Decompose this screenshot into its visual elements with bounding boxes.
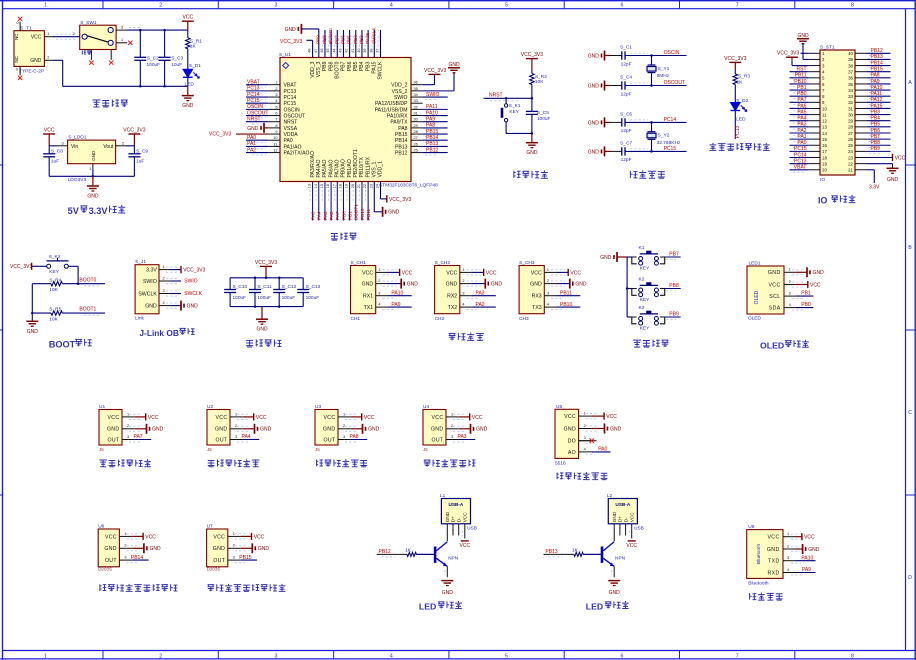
svg-text:3: 3 <box>547 291 549 295</box>
svg-text:GND: GND <box>104 546 116 552</box>
no-connect X on S_T1 bottom pin <box>18 76 22 80</box>
svg-text:OUT: OUT <box>108 437 120 443</box>
wire bottom ground rail <box>63 85 188 87</box>
wire net PC14 <box>790 157 809 159</box>
junction <box>254 305 257 308</box>
svg-text:VCC: VCC <box>531 270 542 276</box>
svg-text:3: 3 <box>275 3 278 9</box>
svg-text:PA10: PA10 <box>801 555 813 561</box>
wire net PB4 <box>361 30 363 58</box>
svg-text:30: 30 <box>414 118 418 122</box>
svg-text:VCC_3V3: VCC_3V3 <box>424 68 446 74</box>
svg-text:PB14: PB14 <box>131 555 143 561</box>
wire net PA0 <box>246 139 268 141</box>
svg-text:PB9: PB9 <box>669 312 679 318</box>
svg-text:PA10/RX: PA10/RX <box>387 113 408 119</box>
svg-text:OSCIN: OSCIN <box>247 104 263 110</box>
svg-text:PA4: PA4 <box>242 434 251 440</box>
wire key to cap bottom <box>506 132 532 134</box>
svg-text:PC14: PC14 <box>247 92 260 98</box>
svg-text:23: 23 <box>848 155 853 160</box>
junction <box>650 84 653 87</box>
svg-text:OUT: OUT <box>324 437 336 443</box>
wire to base <box>416 553 433 555</box>
svg-text:GND: GND <box>564 426 576 432</box>
wire net PA8 <box>423 127 448 129</box>
svg-text:S_ST1: S_ST1 <box>820 44 835 50</box>
svg-text:PB8: PB8 <box>871 140 881 146</box>
svg-text:GND: GND <box>107 427 119 433</box>
svg-text:1K: 1K <box>737 80 744 86</box>
svg-text:GND: GND <box>91 150 96 161</box>
MCU S_U1 STM32F103C8T6_LQFP48 <box>268 48 438 188</box>
svg-text:GND: GND <box>600 255 612 261</box>
svg-text:26: 26 <box>848 137 853 142</box>
svg-text:RXD: RXD <box>767 570 779 576</box>
power port VCC_3V3 jlink <box>171 269 182 271</box>
svg-text:GND: GND <box>323 427 335 433</box>
svg-text:PB11: PB11 <box>560 290 572 296</box>
svg-text:38: 38 <box>369 48 373 52</box>
wire net PA2 <box>246 152 268 154</box>
svg-text:10: 10 <box>822 106 827 111</box>
svg-text:VDD_3: VDD_3 <box>310 61 316 78</box>
svg-text:0: 0 <box>16 68 18 72</box>
svg-text:PB13: PB13 <box>395 144 408 150</box>
svg-text:PA9: PA9 <box>426 117 435 123</box>
wire net PB9 <box>867 150 891 152</box>
svg-text:19: 19 <box>822 161 827 166</box>
svg-text:GND: GND <box>446 282 458 288</box>
svg-text:USB-A: USB-A <box>448 502 463 507</box>
svg-text:20: 20 <box>351 184 355 188</box>
svg-text:PB3: PB3 <box>359 35 364 44</box>
svg-text:PB10: PB10 <box>794 79 806 85</box>
wire T1 VCC to switch <box>56 33 76 35</box>
svg-text:VCC: VCC <box>768 282 780 288</box>
svg-text:3: 3 <box>235 435 237 439</box>
svg-text:19: 19 <box>345 184 349 188</box>
svg-text:15: 15 <box>320 184 324 188</box>
svg-text:PA11: PA11 <box>426 104 438 110</box>
wire net PB8 <box>330 30 332 58</box>
wire net VBAT <box>790 169 809 171</box>
svg-text:PC15: PC15 <box>247 98 260 104</box>
resistor S_R2 10K <box>530 70 548 98</box>
wire net PA2 <box>790 132 809 134</box>
junction <box>31 312 34 315</box>
svg-text:S_K1: S_K1 <box>509 103 521 109</box>
wire base PB12 <box>377 553 407 555</box>
svg-text:PB8: PB8 <box>669 283 679 289</box>
wire DO no-connect <box>579 440 597 442</box>
svg-text:7: 7 <box>736 3 739 9</box>
wire to base <box>583 553 600 555</box>
power port VCC U2 <box>243 416 254 418</box>
caption reset circuit <box>514 171 521 178</box>
svg-text:PA6/AO: PA6/AO <box>328 159 334 177</box>
svg-text:OSCOUT: OSCOUT <box>284 113 306 119</box>
svg-text:GND: GND <box>150 546 162 552</box>
wire net PC13 <box>790 163 809 165</box>
power port VCC oled <box>796 284 808 286</box>
svg-text:S_R4: S_R4 <box>49 277 61 283</box>
svg-text:GND: GND <box>145 304 157 310</box>
svg-text:NPN: NPN <box>448 555 459 561</box>
svg-text:SDA: SDA <box>769 306 781 312</box>
capacitor S_C8 1uF <box>43 146 63 177</box>
svg-text:VCC: VCC <box>256 415 267 421</box>
svg-text:17: 17 <box>332 184 336 188</box>
svg-text:NC: NC <box>14 55 19 62</box>
svg-text:GND: GND <box>213 546 225 552</box>
svg-text:BOOT0: BOOT0 <box>334 61 340 78</box>
wire net PB15 <box>423 133 448 135</box>
svg-text:Link: Link <box>135 316 144 322</box>
svg-text:2: 2 <box>124 544 126 548</box>
caption pir <box>207 585 214 592</box>
wire T1 GND to bottom rail <box>53 59 63 61</box>
svg-text:PB10/TX: PB10/TX <box>359 157 365 178</box>
svg-text:K2: K2 <box>639 276 645 282</box>
svg-text:PA4: PA4 <box>317 211 322 220</box>
svg-text:27: 27 <box>414 136 418 140</box>
svg-text:1: 1 <box>89 167 91 171</box>
svg-text:8: 8 <box>851 3 854 9</box>
svg-text:PB5: PB5 <box>871 122 881 128</box>
wire ground rail boot <box>31 284 33 321</box>
wire PC15 <box>625 150 687 152</box>
svg-text:GND: GND <box>767 547 780 553</box>
svg-text:GND: GND <box>152 427 164 433</box>
svg-text:S_C4: S_C4 <box>620 74 632 80</box>
svg-text:PC13: PC13 <box>735 126 741 139</box>
svg-text:22: 22 <box>363 184 367 188</box>
wire net PB5 <box>867 126 891 128</box>
svg-text:41: 41 <box>351 48 355 52</box>
svg-text:SWIO: SWIO <box>184 279 197 285</box>
caption ir <box>99 460 107 467</box>
svg-text:OUT: OUT <box>213 558 225 564</box>
svg-text:12pF: 12pF <box>621 157 632 163</box>
svg-text:4: 4 <box>547 303 549 307</box>
capacitor S_C12 100uF <box>273 278 296 307</box>
svg-text:VCC: VCC <box>254 534 265 540</box>
junction <box>139 29 142 32</box>
power port VCC U6 <box>132 535 143 537</box>
svg-text:TYPE-C-2P: TYPE-C-2P <box>19 69 44 75</box>
wire VDD_3 <box>307 39 313 41</box>
wire net PB12 <box>867 52 891 54</box>
svg-text:PA7: PA7 <box>797 97 806 103</box>
svg-text:GND: GND <box>808 547 820 553</box>
svg-text:21: 21 <box>848 168 853 173</box>
svg-text:OUT: OUT <box>432 437 444 443</box>
svg-text:1: 1 <box>163 265 165 269</box>
svg-text:PC13: PC13 <box>794 158 807 164</box>
wire net RST <box>790 71 809 73</box>
svg-text:PA12/USB/DP: PA12/USB/DP <box>375 101 408 107</box>
module U7 <box>207 523 241 571</box>
ground GND boot <box>26 320 38 322</box>
svg-text:PB13: PB13 <box>871 54 883 60</box>
svg-text:S_C5: S_C5 <box>537 110 549 116</box>
svg-text:33: 33 <box>414 99 418 103</box>
svg-text:J5: J5 <box>315 447 320 452</box>
svg-text:PB7: PB7 <box>871 134 881 140</box>
svg-text:RX2: RX2 <box>447 294 457 300</box>
svg-text:Vout: Vout <box>103 144 114 150</box>
svg-text:PA6: PA6 <box>329 211 334 220</box>
svg-text:3: 3 <box>62 141 64 145</box>
svg-text:PA10: PA10 <box>871 85 883 91</box>
ground GND at VSS_1 <box>373 182 375 212</box>
svg-text:100uF: 100uF <box>537 116 551 122</box>
wire keys ground rail <box>626 257 628 317</box>
svg-text:PB9: PB9 <box>871 146 881 152</box>
wire net PB3 <box>367 30 369 58</box>
svg-text:J5: J5 <box>99 447 104 452</box>
svg-text:PA12: PA12 <box>871 97 883 103</box>
svg-text:39: 39 <box>848 57 853 62</box>
svg-text:PA4/AO: PA4/AO <box>316 159 322 177</box>
svg-text:AO: AO <box>568 450 576 456</box>
net label 3.3V header pin21 <box>867 169 874 171</box>
connector L1 USB-A <box>440 493 477 541</box>
svg-text:PB9: PB9 <box>322 61 328 71</box>
svg-text:GND: GND <box>445 511 450 522</box>
svg-text:D+: D+ <box>451 516 456 522</box>
svg-text:VCC: VCC <box>804 535 815 541</box>
wire net PA4 <box>790 120 809 122</box>
svg-text:VBAT: VBAT <box>794 165 807 171</box>
capacitor S_C3 10uF <box>159 30 184 86</box>
svg-text:VCC_3V3: VCC_3V3 <box>389 197 411 203</box>
svg-text:PB14: PB14 <box>395 138 408 144</box>
wire net SWIO <box>423 96 448 98</box>
svg-text:PB6: PB6 <box>871 128 881 134</box>
svg-text:2: 2 <box>127 424 129 428</box>
svg-text:OSCOUT: OSCOUT <box>664 80 685 86</box>
svg-text:PB14: PB14 <box>426 135 438 141</box>
wire filter bottom rail <box>230 306 303 308</box>
svg-text:37: 37 <box>376 48 380 52</box>
no-connect X on SW1 bottom pins <box>89 60 93 64</box>
svg-text:35: 35 <box>414 87 418 91</box>
junction <box>92 175 95 178</box>
svg-text:GND: GND <box>768 270 781 276</box>
svg-text:4: 4 <box>584 447 586 451</box>
svg-text:GND: GND <box>187 304 199 310</box>
power port VCC CH2 <box>472 271 484 273</box>
ground GND CH2 <box>472 283 486 285</box>
svg-text:VCC: VCC <box>364 415 375 421</box>
svg-text:VCC: VCC <box>44 127 55 133</box>
svg-text:2: 2 <box>159 653 162 659</box>
wire net PA6 <box>790 107 809 109</box>
wire net PA12 <box>867 101 891 103</box>
svg-text:PB13: PB13 <box>426 141 438 147</box>
power port VCC header pin23 <box>867 157 893 159</box>
svg-text:RST: RST <box>797 66 807 72</box>
svg-text:12: 12 <box>273 148 277 152</box>
svg-text:VCC: VCC <box>486 270 497 276</box>
svg-text:PA2: PA2 <box>476 302 485 308</box>
caption light detect module <box>557 472 563 479</box>
svg-text:36: 36 <box>414 81 418 85</box>
wire net PB11 <box>556 295 580 297</box>
svg-text:PB14: PB14 <box>871 60 883 66</box>
wire base PB13 <box>544 553 574 555</box>
wire net PB1 <box>349 182 351 221</box>
wire net PA3 <box>312 182 314 221</box>
svg-text:U8: U8 <box>748 524 754 530</box>
svg-text:PA5/AO: PA5/AO <box>322 159 328 177</box>
svg-text:S_C6: S_C6 <box>620 111 632 117</box>
svg-text:U1: U1 <box>99 404 105 410</box>
svg-text:VCC_3V3: VCC_3V3 <box>521 52 543 58</box>
svg-text:C: C <box>908 410 912 416</box>
svg-text:PB4: PB4 <box>353 35 358 44</box>
svg-text:PA9/TX: PA9/TX <box>390 120 408 126</box>
svg-text:3: 3 <box>275 93 277 97</box>
crystal S_Y2 <box>647 122 681 151</box>
wire key left <box>627 288 632 290</box>
svg-text:OSCIN: OSCIN <box>664 50 680 56</box>
module U4 <box>423 404 459 452</box>
svg-text:2: 2 <box>789 280 791 284</box>
svg-text:3: 3 <box>275 653 278 659</box>
junction <box>163 85 166 88</box>
svg-text:U3: U3 <box>315 404 321 410</box>
svg-text:GND: GND <box>588 83 600 89</box>
svg-text:VCC: VCC <box>629 512 634 523</box>
svg-text:OSCIN: OSCIN <box>284 107 300 113</box>
svg-text:2: 2 <box>163 277 165 281</box>
svg-text:PA2: PA2 <box>247 147 256 153</box>
svg-text:SWCLK: SWCLK <box>378 61 384 80</box>
wire key left <box>627 316 632 318</box>
junction <box>163 29 166 32</box>
svg-text:PB1: PB1 <box>348 211 353 220</box>
svg-text:2: 2 <box>235 424 237 428</box>
svg-text:J5: J5 <box>207 447 212 452</box>
svg-text:PB15: PB15 <box>871 66 883 72</box>
svg-text:PA5: PA5 <box>323 211 328 220</box>
wire net PA4 <box>318 182 320 221</box>
caption ir <box>424 460 431 467</box>
svg-text:PB8: PB8 <box>322 35 327 44</box>
svg-text:PB5: PB5 <box>353 61 359 71</box>
svg-text:24: 24 <box>848 149 853 154</box>
ground GND jlink <box>171 305 182 307</box>
svg-text:100uF: 100uF <box>257 295 271 301</box>
svg-text:VCC_3V3: VCC_3V3 <box>724 56 746 62</box>
svg-text:PA3: PA3 <box>311 211 316 220</box>
svg-text:VSS_3: VSS_3 <box>316 61 322 77</box>
ground GND filter <box>261 307 263 319</box>
svg-text:PA0: PA0 <box>247 135 256 141</box>
svg-text:3: 3 <box>462 291 464 295</box>
svg-text:D-: D- <box>456 517 461 522</box>
svg-text:DO: DO <box>568 439 576 445</box>
capacitor S_C9 1uF <box>128 146 148 177</box>
svg-text:S_C11: S_C11 <box>257 284 272 290</box>
svg-text:1: 1 <box>343 412 345 416</box>
svg-text:BOOT0: BOOT0 <box>328 28 333 44</box>
svg-text:GND: GND <box>612 511 617 522</box>
wire net PB7 <box>342 30 344 58</box>
svg-text:4: 4 <box>789 303 791 307</box>
svg-text:S_C7: S_C7 <box>620 140 632 146</box>
svg-text:S_C9: S_C9 <box>136 148 148 154</box>
power port VCC U7 <box>241 535 252 537</box>
svg-text:GND: GND <box>588 53 600 59</box>
wire net PB9 <box>324 30 326 58</box>
svg-text:OLED: OLED <box>748 315 762 321</box>
wire net PA8 <box>867 77 891 79</box>
svg-text:VSS_1: VSS_1 <box>372 161 378 177</box>
svg-text:S_LDO1: S_LDO1 <box>68 135 87 141</box>
svg-text:GND: GND <box>285 27 297 33</box>
ground GND oled <box>796 271 807 273</box>
svg-text:8MHz: 8MHz <box>657 73 670 79</box>
svg-text:D-: D- <box>623 517 628 522</box>
svg-text:Bluetooth: Bluetooth <box>748 580 769 586</box>
wire emitter L2 <box>613 566 615 577</box>
capacitor S_C6 12pF <box>610 111 632 134</box>
power port VCC L1 <box>461 531 463 536</box>
svg-text:CH1: CH1 <box>351 316 361 322</box>
ground GND CH1 <box>388 283 402 285</box>
svg-text:IO: IO <box>818 196 827 206</box>
svg-text:TXD: TXD <box>768 559 780 565</box>
wire net PA7 <box>790 101 809 103</box>
svg-text:3.3V: 3.3V <box>869 184 880 190</box>
svg-text:PB4: PB4 <box>359 61 365 71</box>
svg-text:GND: GND <box>431 427 443 433</box>
svg-text:35: 35 <box>848 82 853 87</box>
svg-text:5: 5 <box>275 105 277 109</box>
svg-text:LED: LED <box>586 602 603 612</box>
svg-text:4: 4 <box>163 301 165 305</box>
wire net PB5 <box>355 30 357 58</box>
svg-text:PB10: PB10 <box>360 208 365 220</box>
key S_K2 KEY <box>47 254 69 275</box>
wire net PC15 <box>246 102 268 104</box>
svg-text:28: 28 <box>414 130 418 134</box>
svg-text:PC15: PC15 <box>794 146 807 152</box>
svg-text:3: 3 <box>584 436 586 440</box>
module U1 <box>99 404 135 452</box>
svg-text:3: 3 <box>787 556 789 560</box>
svg-text:2: 2 <box>47 56 49 60</box>
wire net PB0 <box>796 307 814 309</box>
svg-text:PB15: PB15 <box>239 555 251 561</box>
module U6 <box>98 523 132 571</box>
svg-text:PB10: PB10 <box>560 302 572 308</box>
svg-text:1: 1 <box>233 532 235 536</box>
svg-text:8: 8 <box>851 653 854 659</box>
wire net PA8 <box>351 439 367 441</box>
wire net PA9 <box>423 121 448 123</box>
wire net PB12 <box>423 152 448 154</box>
svg-text:3: 3 <box>163 289 165 293</box>
wire net PA11 <box>867 95 891 97</box>
resistor 1K L2 <box>574 552 583 556</box>
svg-text:38: 38 <box>848 63 853 68</box>
svg-text:S_R3: S_R3 <box>738 74 750 80</box>
